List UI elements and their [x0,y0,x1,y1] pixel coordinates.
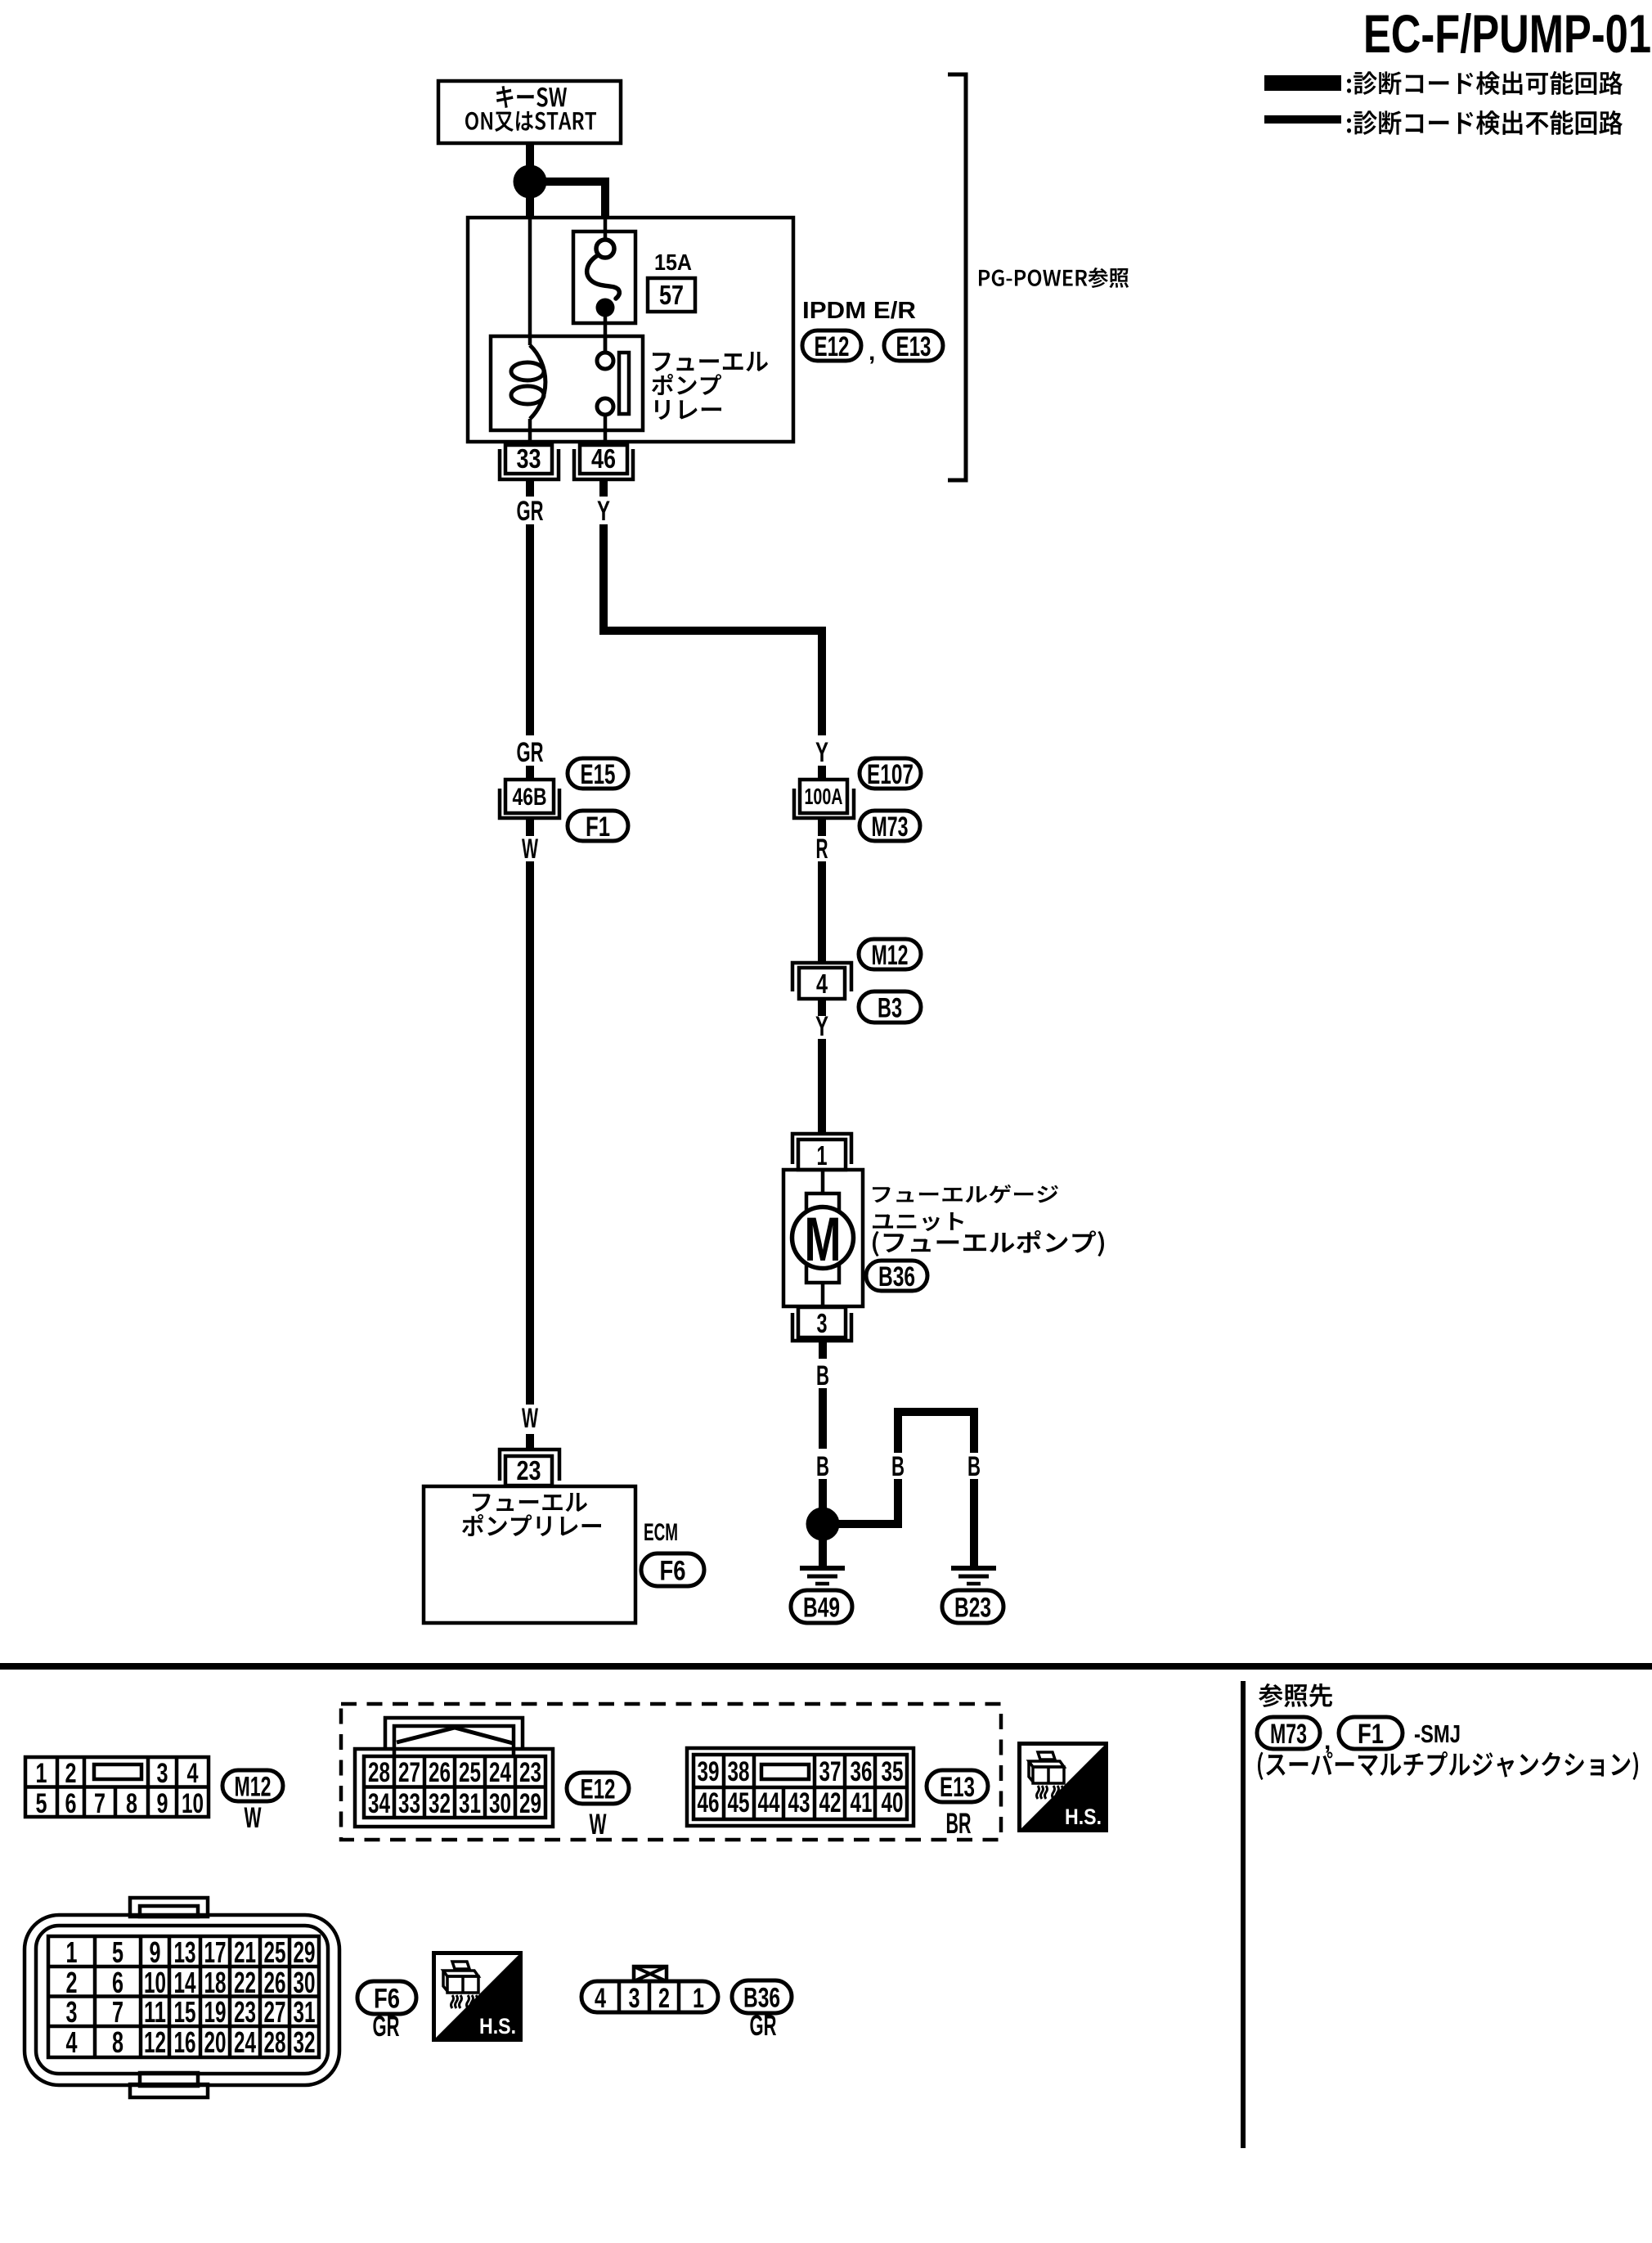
svg-text:M12: M12 [872,940,909,971]
-SMJ label [1414,1719,1461,1748]
fuel gauge pin 1 box [798,1139,846,1171]
connector oval B36 [866,1261,927,1292]
svg-text:11: 11 [144,1995,166,2029]
vertical divider line [1241,1681,1246,2148]
svg-text:100A: 100A [805,784,843,809]
svg-text:21: 21 [234,1935,256,1969]
ECM label [644,1519,678,1546]
svg-text:22: 22 [234,1966,256,1999]
svg-text:W: W [590,1809,607,1841]
svg-text:35: 35 [882,1756,904,1787]
wire color label Y [597,496,610,527]
svg-text:23: 23 [234,1995,256,2029]
connector face B36 pill [581,1981,718,2014]
svg-text:GR: GR [373,2011,400,2043]
ECM relay label フューエル ポンプリレー [462,1493,601,1536]
svg-text:M: M [805,1205,842,1274]
comma separator [1324,1728,1331,1755]
svg-text:28: 28 [264,2025,286,2059]
svg-text:4: 4 [595,1983,606,2014]
svg-text:25: 25 [459,1757,481,1788]
svg-text:15: 15 [174,1995,196,2029]
svg-text:,: , [869,339,875,366]
ECM pin 23 bracket [500,1450,559,1481]
wire R run [818,861,826,962]
B36 color label GR [750,2010,777,2042]
key switch box (キーSW ON又はSTART) [438,81,621,143]
fuse 15A box [573,231,635,323]
svg-text:30: 30 [294,1966,316,1999]
wire color label GR (above 46B) [517,737,544,768]
dashed box around E12/E13 faces [341,1704,1001,1840]
wire color label W [522,834,539,865]
relay coil [511,338,545,442]
svg-text:Y: Y [597,496,610,527]
svg-text:7: 7 [94,1788,105,1819]
svg-text:42: 42 [819,1787,842,1818]
svg-text:E13: E13 [940,1772,975,1803]
junction node (solder point) [514,165,547,199]
H.S. icon (E12/E13) [1020,1744,1107,1831]
svg-text:B23: B23 [954,1592,991,1623]
pin 33 bracket [500,449,559,479]
connector oval F1 [568,811,628,843]
svg-text:W: W [522,834,539,865]
H.S. icon (F6) [434,1953,521,2040]
wire Y into 100A [818,766,826,780]
super multiple junction note [1258,1751,1638,1780]
svg-text:E12: E12 [815,331,850,362]
svg-text:F6: F6 [660,1555,686,1586]
legend thick-line sample (detectable circuit) [1264,75,1341,91]
fuse element symbol [587,240,620,317]
ground symbol B23 [951,1568,996,1584]
wire W below 46B [526,820,534,836]
svg-text:12: 12 [144,2025,166,2059]
svg-text:32: 32 [429,1788,451,1819]
pin 33 connector box [505,443,552,474]
46B bracket [500,789,559,818]
wire color label Y (above 100A) [815,737,828,768]
fuel gauge unit label [873,1184,1104,1256]
reference heading 参照先 [1259,1683,1332,1707]
wire B run [819,1388,827,1449]
svg-text:,: , [1324,1728,1331,1755]
svg-text:23: 23 [517,1455,541,1486]
svg-text:36: 36 [851,1756,873,1787]
svg-text:33: 33 [398,1788,420,1819]
wire inside IPDM to relay coil (thin) [528,218,532,338]
svg-text:W: W [522,1403,539,1434]
IPDM E/R label [802,298,916,324]
svg-text:H.S.: H.S. [479,2014,516,2038]
svg-text:B36: B36 [743,1982,780,2013]
connector face M12 grid [25,1757,209,1819]
legend text: diagnostic code undetectable circuit [1347,110,1623,135]
svg-text:F6: F6 [374,1983,400,2014]
wire Y into fuel gauge unit [818,1039,826,1132]
svg-text:1: 1 [36,1758,47,1789]
svg-text:31: 31 [294,1995,316,2029]
svg-text:34: 34 [368,1788,390,1819]
connector oval B3 [859,991,921,1023]
svg-text:1: 1 [66,1935,78,1969]
svg-text:14: 14 [174,1966,196,1999]
fuel gauge pin 3 box [798,1307,846,1338]
connector face E13 grid [687,1748,914,1826]
connector face B36 keyway [634,1967,667,1981]
fuel gauge pin 3 bracket [792,1313,851,1341]
motor terminal rect [806,1193,839,1283]
ground oval B23 [942,1590,1003,1623]
fuel pump relay box [491,336,643,430]
fuel pump motor M [792,1205,854,1274]
svg-text:26: 26 [264,1966,286,1999]
connector oval E12 [802,330,861,362]
svg-text:R: R [816,834,828,865]
fuse number box 57 [648,278,695,312]
connector face F6 grid [48,1935,319,2059]
wire color label W (above pin 23) [522,1403,539,1434]
svg-text:Y: Y [815,1011,828,1042]
svg-text:4: 4 [187,1758,199,1789]
wire GR long run [526,524,534,735]
wire W into pin 23 [526,1434,534,1449]
F6 color label GR [373,2011,400,2043]
connector oval F6 (face) [357,1981,416,2014]
svg-text:44: 44 [758,1787,780,1818]
legend text: diagnostic code detectable circuit [1347,71,1623,95]
bridge wire middle to right [898,1412,974,1453]
connector face E12 grid [355,1749,553,1827]
relay label フューエル ポンプ リレー [652,352,768,420]
svg-text:13: 13 [174,1935,196,1969]
svg-text:ECM: ECM [644,1519,678,1546]
wire junction to ground symbol B49 [819,1538,827,1568]
wire B down to ground B23 [970,1479,978,1568]
svg-text:B36: B36 [878,1261,915,1292]
ECM pin 23 box [505,1455,552,1486]
wire color label Y (above fuel gauge) [815,1011,828,1042]
svg-text:46: 46 [591,443,616,474]
svg-text:M12: M12 [235,1771,272,1802]
svg-text:38: 38 [728,1756,750,1787]
connector oval F6 [641,1553,704,1586]
svg-text:37: 37 [819,1756,842,1787]
svg-text:E12: E12 [581,1773,616,1805]
svg-text:3: 3 [157,1758,168,1789]
wire GR into 46B [526,766,534,780]
svg-text:41: 41 [851,1787,873,1818]
svg-text:F1: F1 [1358,1719,1384,1750]
svg-text:2: 2 [66,1966,78,1999]
svg-text:B49: B49 [803,1592,840,1623]
svg-text:46: 46 [698,1787,720,1818]
connector oval E15 [568,758,628,790]
svg-text:10: 10 [144,1966,166,1999]
svg-text:3: 3 [66,1995,78,2029]
svg-text:M73: M73 [1270,1719,1307,1750]
connector oval E13 [884,330,943,362]
svg-text:2: 2 [658,1983,670,2014]
svg-text:2: 2 [65,1758,77,1789]
ground symbol B49 [800,1568,845,1584]
svg-text:15A: 15A [654,249,692,275]
svg-text:BR: BR [946,1808,972,1840]
svg-text:17: 17 [204,1935,227,1969]
wire color label GR [517,496,544,527]
svg-text:H.S.: H.S. [1065,1805,1102,1829]
svg-text:39: 39 [698,1756,720,1787]
svg-text:10: 10 [182,1788,204,1819]
svg-text:20: 20 [204,2025,227,2059]
svg-text:B: B [967,1451,981,1482]
svg-text:30: 30 [489,1788,511,1819]
wire W long run to ECM [526,861,534,1405]
horizontal separator line [0,1663,1652,1670]
wire pin1 to motor [821,1170,825,1193]
E13 color label BR [946,1808,972,1840]
wire Y below connector 4 [818,999,826,1016]
connector oval E107 [860,758,921,790]
svg-text:16: 16 [174,2025,196,2059]
comma separator [869,339,875,366]
connector oval M73 (reference) [1257,1717,1320,1750]
connector oval M73 [860,811,920,843]
svg-text:IPDM E/R: IPDM E/R [802,298,916,324]
svg-text:EC-F/PUMP-01: EC-F/PUMP-01 [1363,3,1651,64]
connector oval E13 (face) [927,1770,988,1803]
wire junction to fuse branch (thick, right then down) [533,182,605,218]
svg-text:32: 32 [294,2025,316,2059]
SMJ connector 46B box [505,780,554,813]
fuel gauge unit box [783,1170,863,1306]
svg-text:M73: M73 [872,811,909,843]
svg-text:1: 1 [693,1983,704,2014]
svg-text:GR: GR [517,737,544,768]
in-line connector 4 bracket [792,963,851,991]
ground oval B49 [791,1590,852,1623]
in-line connector 4 box [799,968,845,999]
svg-text:Y: Y [815,737,828,768]
svg-text:19: 19 [204,1995,227,2029]
wire junction down into IPDM (thick) [526,196,534,218]
svg-text:6: 6 [65,1788,77,1819]
E12 color label W [590,1809,607,1841]
100A bracket [794,789,854,818]
svg-text:GR: GR [750,2010,777,2042]
fuse label 15A [654,249,692,275]
wire color label R [816,834,828,865]
IPDM E/R box [468,218,793,442]
svg-text:GR: GR [517,496,544,527]
svg-text:8: 8 [112,2025,123,2059]
svg-text:W: W [245,1802,262,1834]
svg-text:26: 26 [429,1757,451,1788]
svg-text:18: 18 [204,1966,227,1999]
connector face F6 housing [25,1898,339,2097]
PG-POWER参照 label [979,267,1129,288]
title EC-F/PUMP-01 [1363,3,1651,64]
relay contact [597,338,629,442]
svg-text:9: 9 [157,1788,168,1819]
svg-text:57: 57 [659,280,684,310]
svg-text:46B: 46B [513,784,547,811]
wire color label B [816,1360,829,1391]
pin 46 bracket [574,449,633,479]
svg-text:B: B [816,1451,829,1482]
wire R below 100A [818,820,826,836]
svg-text:E15: E15 [581,759,616,790]
legend thin-line sample (undetectable circuit) [1264,115,1341,124]
svg-text:4: 4 [816,969,828,999]
wire color label B (left) [816,1451,829,1482]
svg-text:8: 8 [126,1788,137,1819]
M12 color label W [245,1802,262,1834]
wire GR below pin 33 [526,481,534,497]
wire color label B (middle) [891,1451,905,1482]
svg-text:43: 43 [788,1787,810,1818]
svg-text:27: 27 [398,1757,420,1788]
svg-text:E13: E13 [896,331,931,362]
svg-text:7: 7 [112,1995,123,2029]
svg-text:24: 24 [489,1757,511,1788]
connector oval E12 (face) [567,1773,629,1805]
fuel gauge pin 1 bracket [792,1134,851,1164]
svg-text:6: 6 [112,1966,123,1999]
svg-text:5: 5 [112,1935,123,1969]
svg-text:5: 5 [36,1788,47,1819]
branch wire to middle B [828,1479,898,1524]
svg-text:1: 1 [817,1140,828,1171]
wire from key switch down to junction [526,143,534,172]
wire motor to pin3 [821,1283,825,1306]
ECM box [424,1486,635,1623]
ground junction node [806,1508,840,1541]
wire color label B (right) [967,1451,981,1482]
wire Y jog right [604,524,822,735]
svg-text:45: 45 [728,1787,750,1818]
wire Y below pin 46 [599,481,608,497]
connector oval M12 (face) [222,1770,283,1802]
wire fuse to relay contact (thin) [604,316,608,353]
svg-text:23: 23 [519,1757,541,1788]
svg-text:29: 29 [294,1935,316,1969]
svg-text:29: 29 [519,1788,541,1819]
wire B below pin 3 [819,1342,827,1359]
svg-text:4: 4 [66,2025,78,2059]
connector face E12 hat [385,1718,523,1756]
svg-text:31: 31 [459,1788,481,1819]
svg-text:3: 3 [629,1983,640,2014]
svg-text:B3: B3 [878,992,902,1023]
svg-text:9: 9 [150,1935,161,1969]
svg-text:27: 27 [264,1995,286,2029]
svg-text:3: 3 [817,1308,828,1338]
svg-text:-SMJ: -SMJ [1414,1719,1461,1748]
svg-text:40: 40 [882,1787,904,1818]
connector oval F1 (reference) [1339,1717,1403,1750]
SMJ connector 100A box [800,780,847,813]
pin 46 connector box [580,443,627,474]
connector oval M12 [859,939,921,971]
wire B into ground junction [819,1479,827,1512]
svg-text:28: 28 [368,1757,390,1788]
svg-text:B: B [891,1451,905,1482]
wire inside IPDM to fuse (thin) [604,218,608,241]
svg-text:33: 33 [517,443,541,474]
svg-text:24: 24 [234,2025,256,2059]
PG-POWER reference bracket [948,74,966,480]
svg-text:F1: F1 [586,811,610,843]
connector oval B36 (face) [732,1980,792,2013]
svg-text:25: 25 [264,1935,286,1969]
svg-text:E107: E107 [867,759,914,790]
svg-text:B: B [816,1360,829,1391]
